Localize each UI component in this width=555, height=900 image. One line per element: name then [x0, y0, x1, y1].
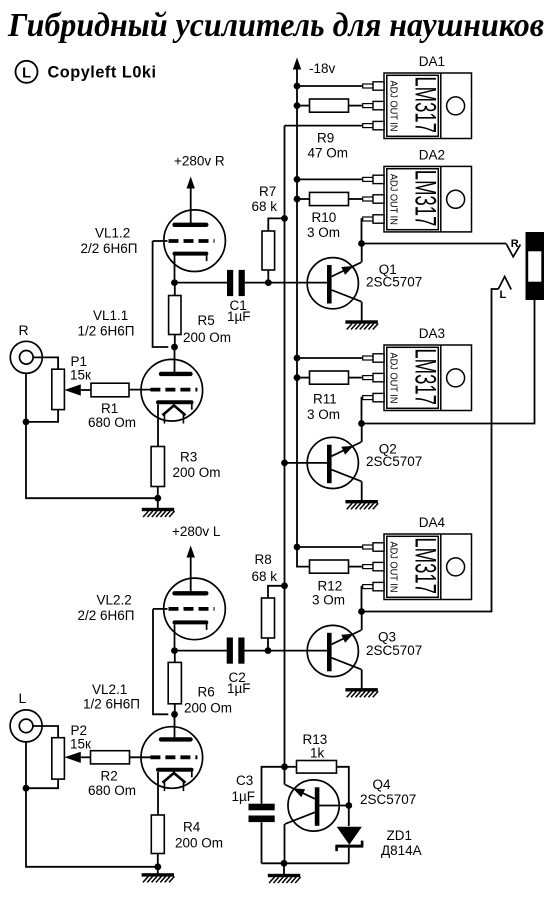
wire ground stub bottom [283, 863, 285, 874]
junction P1 / input ground [23, 419, 30, 426]
wire Q3 emitter up [361, 612, 363, 631]
svg-text:R10: R10 [312, 210, 337, 225]
svg-text:ADJ OUT IN: ADJ OUT IN [388, 353, 399, 404]
junction P2 / input ground [23, 785, 30, 792]
junction rail A / DA1 ADJ [294, 83, 301, 90]
wire R11 right to DA3 OUT [349, 377, 363, 379]
svg-text:LM317: LM317 [408, 170, 441, 227]
svg-text:47 Om: 47 Om [308, 146, 349, 161]
wire RCA R ground down [26, 373, 158, 498]
wire R7 top [268, 218, 284, 231]
resistor R6 [168, 662, 181, 703]
wire R4 bottom [157, 854, 159, 867]
wire RCA R to P1 [33, 357, 58, 369]
potentiometer P1 [52, 369, 65, 409]
junction rail A / R9 [294, 102, 301, 109]
svg-text:R8: R8 [255, 552, 272, 567]
svg-text:2/2 6Н6П: 2/2 6Н6П [78, 608, 135, 623]
wire ground stub R4 [157, 867, 159, 874]
ground bottom [268, 874, 301, 883]
svg-text:15к: 15к [70, 368, 91, 383]
junction rail B bottom node [281, 763, 288, 770]
wire cathode node to C2 [175, 650, 228, 652]
wire rail B [284, 126, 286, 767]
svg-text:DA1: DA1 [419, 54, 445, 69]
svg-text:200 Om: 200 Om [175, 836, 223, 851]
wire R8 top [268, 586, 285, 598]
wire R5 bottom [174, 335, 176, 348]
P1 wiper arrow [64, 384, 80, 395]
wire VL1.2 grid lead [153, 240, 168, 242]
wire cathode node to R6 [174, 651, 176, 663]
resistor R10 [310, 192, 349, 205]
wire VL2.2 cathode down [174, 624, 176, 650]
wire DA4 IN down to Q3 emitter node [362, 587, 363, 612]
wire VL1.2 cathode down [174, 256, 176, 283]
wire R9 left [297, 105, 310, 107]
P2 wiper arrow [64, 752, 80, 763]
wire VL1.1 cathode down to R3 [157, 404, 159, 446]
svg-text:R1: R1 [101, 401, 118, 416]
zener diode ZD1 [335, 827, 363, 851]
resistor R11 [310, 371, 349, 384]
tube VL2.1 [141, 727, 203, 791]
tube VL2.2 [164, 578, 226, 640]
junction Q1 emitter node [358, 240, 365, 247]
svg-text:2SC5707: 2SC5707 [366, 454, 422, 469]
capacitor C3 [249, 804, 275, 822]
wire node to VL1.1 plate [174, 347, 176, 372]
resistor R1 [91, 383, 129, 397]
wire R10 left [297, 198, 310, 200]
svg-text:VL2.1: VL2.1 [92, 682, 127, 697]
junction VL1.2 cathode node [171, 279, 178, 286]
svg-text:68 k: 68 k [252, 569, 278, 584]
junction rail A / DA2 ADJ [294, 176, 301, 183]
svg-text:680 Om: 680 Om [88, 783, 136, 798]
tube VL1.1 [141, 359, 203, 423]
svg-text:1µF: 1µF [227, 309, 251, 324]
junction rail A / DA3 ADJ [294, 355, 301, 362]
wire C2 to Q3 base [245, 650, 328, 652]
wire node to VL2.1 plate [174, 714, 176, 737]
svg-text:C3: C3 [236, 773, 253, 788]
wire R12 right to DA4 OUT [349, 566, 363, 568]
transistor Q4 [285, 780, 339, 831]
wire R2 to VL2.1 grid [130, 756, 151, 758]
ground under Q2 [345, 500, 378, 509]
wire arrow to VL2.2 plate [190, 557, 192, 592]
wire P2 bottom [26, 779, 58, 788]
svg-text:Q4: Q4 [373, 777, 392, 792]
svg-text:3 Om: 3 Om [307, 407, 340, 422]
wire Q1 emitter up [361, 244, 363, 263]
svg-text:R9: R9 [317, 131, 334, 146]
wire R9 right to DA1 OUT [349, 105, 363, 107]
tube VL1.2 [164, 210, 226, 272]
wire DA2 ADJ to rail A [297, 178, 363, 180]
potentiometer P2 [52, 738, 65, 779]
wire RCA L ground down [26, 742, 158, 867]
svg-text:1µF: 1µF [232, 789, 256, 804]
junction VL2.2 cathode node [171, 647, 178, 654]
wire R3 bottom [157, 487, 159, 499]
svg-text:L: L [22, 65, 31, 81]
wire cathode node to R5 [174, 283, 176, 296]
svg-text:L: L [19, 690, 27, 706]
wire wiper to R1 [81, 389, 91, 391]
svg-text:3 Om: 3 Om [307, 225, 340, 240]
wire Q2 collector down [361, 481, 363, 500]
svg-text:VL2.2: VL2.2 [97, 593, 132, 608]
svg-text:LM317: LM317 [408, 76, 441, 133]
svg-text:R: R [19, 322, 29, 338]
op-amp regulator DA2 (LM317) [363, 147, 472, 232]
wire Q1 collector down [361, 302, 363, 321]
RCA jack R inner [20, 351, 34, 365]
wire L output line [362, 289, 499, 612]
svg-text:DA2: DA2 [419, 147, 445, 162]
wire wiper to R2 [81, 756, 91, 758]
wire bottom node left to C3 [262, 767, 285, 804]
resistor R7 [262, 231, 275, 270]
svg-text:ADJ OUT IN: ADJ OUT IN [388, 174, 399, 225]
svg-text:R: R [511, 238, 519, 250]
wire DA2 IN down to Q1 emitter node [362, 219, 363, 244]
capacitor C1 [227, 270, 245, 296]
wire R1 to VL1.1 grid [129, 389, 151, 391]
svg-text:-18v: -18v [309, 61, 336, 76]
junction Q2 emitter node [358, 420, 365, 427]
RCA jack L outer [10, 710, 42, 742]
wire RCA L to P2 [33, 726, 58, 738]
copyleft logo [16, 61, 38, 83]
wire bottom node right to R13 [285, 766, 297, 768]
svg-text:200 Om: 200 Om [184, 701, 232, 716]
resistor R12 [310, 560, 349, 573]
junction R8 bottom [265, 647, 272, 654]
wire DA3 IN down to Q2 emitter node [362, 398, 363, 424]
svg-text:R4: R4 [183, 820, 201, 835]
svg-text:R6: R6 [198, 685, 215, 700]
wire rail B to Q2 base [285, 462, 328, 464]
wire R6 bottom [174, 704, 176, 715]
wire DA3 ADJ to rail A [297, 357, 363, 359]
wire Q3 collector down [361, 669, 363, 688]
wire VL2.1 cathode down to R4 [157, 772, 159, 815]
wire bottom line [262, 862, 349, 864]
junction rail A / R10 [294, 196, 301, 203]
wire C1 to Q1 base [245, 282, 327, 284]
op-amp regulator DA4 (LM317) [363, 515, 472, 600]
wire R13 to right leg [337, 767, 349, 826]
wire ground stub R3 [157, 498, 159, 508]
resistor R13 [297, 761, 337, 774]
junction R5 bottom node [171, 344, 178, 351]
wire R10 right to DA2 OUT [349, 198, 363, 200]
svg-text:1/2 6Н6П: 1/2 6Н6П [78, 324, 135, 339]
wire VL2.2 grid lead [153, 608, 168, 610]
svg-text:200 Om: 200 Om [183, 330, 231, 345]
wire Q2 emitter up [361, 424, 363, 443]
resistor R9 [310, 99, 349, 112]
svg-text:Гибридный усилитель для наушни: Гибридный усилитель для наушников [7, 7, 544, 44]
resistor R5 [169, 296, 181, 335]
svg-text:ADJ OUT IN: ADJ OUT IN [388, 542, 399, 593]
svg-text:1/2 6Н6П: 1/2 6Н6П [83, 697, 140, 712]
ground under Q3 [345, 688, 378, 697]
wire R8 bottom [267, 638, 269, 651]
junction rail B / R8 [281, 582, 288, 589]
resistor R4 [151, 815, 164, 854]
junction R6 bottom node [171, 711, 178, 718]
svg-text:2SC5707: 2SC5707 [360, 792, 416, 807]
transistor Q1 [307, 258, 361, 309]
junction R7 bottom [265, 279, 272, 286]
svg-text:DA3: DA3 [419, 326, 445, 341]
resistor R3 [151, 447, 164, 487]
wire DA1 IN to rail B [285, 125, 363, 127]
wire R11 left [297, 377, 310, 379]
op-amp regulator DA1 (LM317) [363, 54, 472, 139]
resistor R8 [262, 598, 275, 638]
op-amp regulator DA3 (LM317) [363, 326, 472, 411]
svg-text:200 Om: 200 Om [173, 465, 221, 480]
svg-text:68 k: 68 k [252, 199, 278, 214]
svg-text:R7: R7 [259, 184, 276, 199]
wire P1 bottom [26, 410, 58, 422]
RCA jack L inner [19, 719, 33, 733]
svg-text:1k: 1k [310, 746, 325, 761]
wire VL1.2 grid feedback down [153, 241, 169, 347]
wire sleeve line to jack [362, 300, 535, 424]
svg-text:VL1.1: VL1.1 [93, 308, 128, 323]
junction rail B / R7 [281, 215, 288, 222]
junction Q3 emitter node [358, 608, 365, 615]
wire R output line [362, 243, 507, 245]
wire C3 bottom [261, 822, 263, 863]
wire DA1 ADJ to rail A [297, 85, 363, 87]
junction Q4 base node [345, 802, 352, 809]
svg-text:LM317: LM317 [408, 348, 441, 405]
svg-text:R3: R3 [180, 450, 197, 465]
wire Q4 base [319, 805, 349, 807]
svg-text:R5: R5 [198, 313, 215, 328]
svg-text:L: L [500, 289, 507, 301]
svg-text:15к: 15к [70, 737, 91, 752]
svg-text:680 Om: 680 Om [88, 415, 136, 430]
svg-text:VL1.2: VL1.2 [95, 226, 130, 241]
anode supply arrow L [187, 546, 195, 558]
junction R4 / ground line [154, 863, 161, 870]
wire arrow to VL1.2 plate [190, 188, 192, 224]
transistor Q2 [307, 437, 361, 488]
RCA jack R outer [10, 341, 42, 373]
svg-text:DA4: DA4 [419, 515, 446, 530]
junction R3 / ground line [154, 495, 161, 502]
svg-text:Д814А: Д814А [381, 843, 422, 858]
wire DA4 ADJ to rail A [297, 546, 363, 548]
svg-text:1µF: 1µF [227, 681, 251, 696]
transistor Q3 [307, 625, 361, 676]
net -18v arrow [293, 58, 301, 70]
connector chevron L [498, 277, 511, 290]
wire VL2.2 grid feedback down [153, 609, 168, 714]
capacitor C2 [227, 638, 245, 664]
headphone jack plug [526, 232, 545, 300]
wire Q4 emitter up [284, 767, 286, 785]
wire ZD1 to bottom line [348, 848, 350, 864]
wire Q4 collector down [284, 824, 286, 863]
svg-text:2SC5707: 2SC5707 [366, 643, 422, 658]
junction rail B / Q2 base [281, 460, 288, 467]
svg-text:Copyleft L0ki: Copyleft L0ki [48, 63, 157, 81]
junction rail A / DA4 ADJ [294, 544, 301, 551]
anode supply arrow R [187, 177, 195, 189]
svg-text:R2: R2 [101, 769, 118, 784]
svg-text:3 Om: 3 Om [312, 593, 345, 608]
svg-text:+280v R: +280v R [174, 154, 225, 169]
junction rail A / R11 [294, 374, 301, 381]
svg-text:2/2 6Н6П: 2/2 6Н6П [81, 241, 138, 256]
svg-text:LM317: LM317 [408, 537, 441, 594]
svg-text:2SC5707: 2SC5707 [366, 275, 422, 290]
svg-text:ADJ OUT IN: ADJ OUT IN [388, 81, 399, 132]
ground under R4 [142, 873, 175, 882]
ground under R3 [142, 508, 175, 517]
resistor R2 [91, 751, 130, 764]
svg-text:ZD1: ZD1 [387, 828, 413, 843]
junction bottom ground node [281, 860, 288, 867]
svg-text:R12: R12 [318, 579, 343, 594]
svg-text:+280v L: +280v L [172, 524, 221, 539]
wire rail A (-18v bus) [297, 69, 310, 567]
ground under Q1 [345, 320, 378, 329]
wire cathode node to C1 [175, 282, 228, 284]
svg-text:R11: R11 [313, 392, 337, 407]
connector chevron R [506, 244, 520, 257]
wire R7 bottom [267, 270, 269, 283]
